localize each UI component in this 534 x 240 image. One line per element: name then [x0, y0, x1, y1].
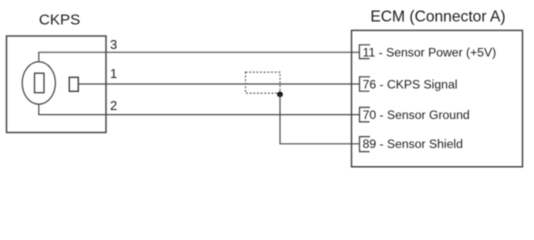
svg-text:CKPS: CKPS — [39, 12, 80, 29]
sensor inner rectangle — [35, 73, 45, 93]
pin 76 bracket — [360, 77, 371, 91]
svg-text:2: 2 — [110, 98, 117, 113]
sensor ellipse — [22, 62, 55, 104]
wire 2: sensor bottom to pin 70 — [39, 104, 360, 114]
wire 1: pin square to pin 76 — [78, 83, 359, 85]
ECM connector box — [352, 30, 523, 166]
svg-text:89 - Sensor Shield: 89 - Sensor Shield — [363, 137, 463, 151]
svg-text:3: 3 — [110, 37, 117, 52]
svg-text:11 - Sensor Power (+5V): 11 - Sensor Power (+5V) — [363, 45, 497, 59]
wire 3: sensor top to pin 11 — [39, 52, 360, 62]
pin 11 bracket — [359, 45, 370, 59]
shield junction dot — [277, 92, 283, 98]
CKPS connector box — [7, 36, 107, 133]
shield dashed box — [246, 72, 281, 93]
shield drain wire to pin 89 — [280, 94, 360, 144]
pin 70 bracket — [360, 107, 371, 122]
pin 89 bracket — [360, 137, 371, 152]
svg-text:1: 1 — [110, 66, 117, 81]
svg-text:76 - CKPS Signal: 76 - CKPS Signal — [363, 78, 458, 92]
connector pin square — [69, 77, 78, 91]
svg-text:ECM (Connector A): ECM (Connector A) — [370, 9, 505, 26]
svg-text:70 - Sensor Ground: 70 - Sensor Ground — [363, 108, 470, 122]
